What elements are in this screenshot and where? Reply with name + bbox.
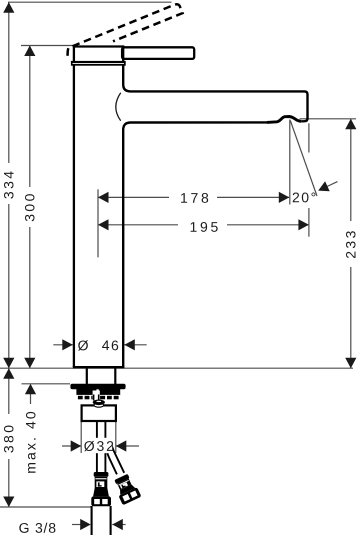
wire: top extension line (max handle height) (8, 1, 172, 3)
arrow down 380 (3, 497, 14, 508)
base neck below body (86, 368, 88, 384)
wire: counter underside line (22, 383, 71, 385)
arrow right into body d46 (62, 339, 73, 350)
spout underside and body right edge lower (123, 122, 267, 367)
wire: extension line aerator axis / 20deg (289, 120, 291, 205)
dimension 195 (98, 224, 309, 226)
svg-text:20°: 20° (292, 189, 318, 205)
dimension 334 vertical line (8, 2, 10, 368)
extension lines d32 (81, 422, 116, 453)
shank block (82, 405, 116, 421)
svg-text:300: 300 (22, 191, 38, 222)
svg-text:380: 380 (1, 423, 17, 454)
dimension 233 vertical line (350, 119, 352, 368)
arrow left 195 (98, 219, 109, 230)
flange ribbed washer band (76, 394, 120, 397)
dimension diameter 46 (53, 344, 146, 346)
faucet body left edge (73, 65, 75, 367)
arrow 20deg pointer (327, 182, 338, 187)
arrow up 380 (3, 368, 14, 379)
arrow right 195 (298, 219, 309, 230)
arrow right 178 (279, 192, 290, 203)
mounting flange bar (70, 384, 125, 390)
arrow right into shank d32 (71, 440, 82, 451)
faucet body right edge + spout outline (123, 65, 307, 121)
svg-text:Ø: Ø (78, 337, 90, 353)
arrow down 233 (345, 358, 356, 369)
right hose connector (112, 473, 142, 506)
svg-text:195: 195 (189, 219, 220, 235)
wire: centre reference line at body axis (97, 189, 99, 257)
arrow up 334 (3, 2, 14, 13)
arrow left 178 (98, 192, 109, 203)
faucet handle lever (122, 47, 194, 59)
svg-text:G 3/8: G 3/8 (19, 520, 57, 535)
svg-text:178: 178 (180, 190, 211, 206)
spout body junction fillet (116, 93, 121, 121)
wire: extension line at handle level (21, 45, 74, 47)
arrow up 233 (345, 119, 356, 130)
dimension 300 vertical line (29, 46, 31, 369)
dimension G3/8 arrows (72, 524, 81, 526)
wire: extension line spout tip upper (308, 123, 310, 152)
hose guide slot (93, 391, 100, 401)
arrow down 334 (3, 358, 14, 369)
faucet handle block (74, 47, 123, 63)
dimension 380 vertical line (8, 368, 10, 507)
arrow left into body d46 (124, 339, 135, 350)
label diameter 32 white backing (83, 438, 112, 453)
svg-text:334: 334 (1, 169, 17, 200)
right hose tube bend (106, 444, 117, 474)
dimension 178 (98, 196, 289, 198)
wire: extension line spout tip lower (308, 208, 310, 237)
arrow up max40 (25, 384, 36, 395)
dimension max.40 (30, 392, 32, 404)
arrow down 300 (24, 358, 35, 369)
svg-text:233: 233 (343, 228, 359, 259)
dimension diameter 32 (62, 445, 139, 447)
left hose tube (96, 422, 98, 473)
svg-text:Ø32: Ø32 (84, 438, 116, 454)
left hose lower tube G3/8 (91, 506, 93, 535)
hose nipple ellipse (94, 403, 104, 407)
wire: countertop line (0, 367, 353, 369)
faucet handle collar band (71, 61, 126, 66)
wire: spout outlet height line (300, 118, 357, 120)
wire: 20 degree slanted line (290, 121, 317, 197)
arrow left into shank d32 (116, 440, 127, 451)
faucet body bottom edge (73, 366, 125, 368)
left hose connector (91, 472, 111, 506)
wire: hose end line (0, 506, 91, 508)
dashed handle raised position (68, 4, 183, 56)
flange second band (76, 389, 120, 395)
arrow up 300 (24, 46, 35, 57)
svg-text:max. 40: max. 40 (22, 409, 38, 474)
svg-text:46: 46 (102, 337, 120, 353)
spout aerator bump (267, 117, 301, 123)
